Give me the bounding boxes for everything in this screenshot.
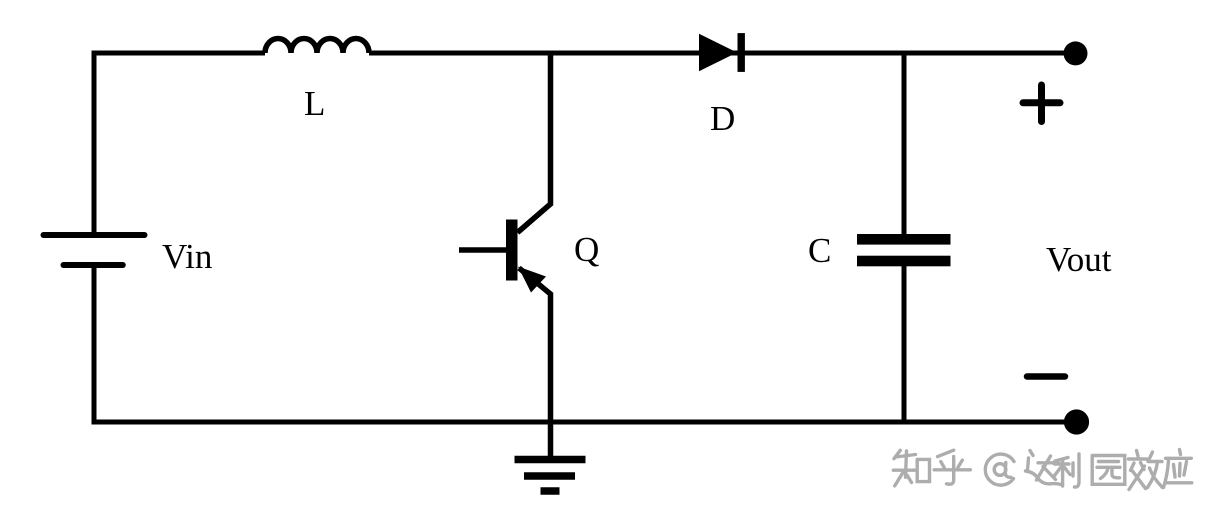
node: output - terminal xyxy=(1064,409,1089,434)
wire: emitter vertical to ground xyxy=(548,422,554,457)
label D xyxy=(710,99,735,138)
battery Vin xyxy=(44,235,145,265)
node: output + terminal xyxy=(1064,41,1088,65)
minus sign xyxy=(1027,373,1065,380)
diode D xyxy=(699,33,745,72)
svg-text:L: L xyxy=(304,84,325,123)
label L xyxy=(304,84,325,123)
transistor Q1 emitter with arrow xyxy=(518,267,551,423)
glyph @ xyxy=(985,454,1014,485)
inductor L xyxy=(265,39,369,54)
watermark: 知乎 @达利园效应 (hand-drawn gray strokes) xyxy=(893,450,1192,490)
wire: collector vertical from top rail xyxy=(518,53,551,233)
label Q xyxy=(574,230,599,269)
wire: top rail from input corner to output terminal xyxy=(94,51,1075,56)
glyph 知 xyxy=(893,450,929,486)
wire: capacitor top vertical xyxy=(902,53,907,234)
glyph 效 xyxy=(1129,451,1163,490)
transistor Q1 base lead xyxy=(459,247,506,253)
plus sign xyxy=(1023,85,1060,122)
label Vin xyxy=(162,237,212,276)
svg-text:Q: Q xyxy=(574,230,599,269)
glyph 乎 xyxy=(934,450,970,484)
ground xyxy=(515,460,586,492)
wire: bottom rail xyxy=(92,420,1077,425)
transistor Q1 base bar xyxy=(506,220,518,281)
svg-text:Vin: Vin xyxy=(162,237,212,276)
glyph 园 xyxy=(1092,456,1125,485)
capacitor C xyxy=(857,234,951,266)
wire: left vertical from battery to bottom rail xyxy=(92,265,97,424)
glyph 利 xyxy=(1054,454,1080,487)
glyph 应 xyxy=(1164,450,1192,488)
wire: left vertical from top rail to battery xyxy=(92,51,97,236)
glyph 达 xyxy=(1026,451,1062,485)
svg-text:C: C xyxy=(808,231,831,270)
label Vout xyxy=(1046,240,1112,279)
label C xyxy=(808,231,831,270)
svg-text:D: D xyxy=(710,99,735,138)
svg-text:Vout: Vout xyxy=(1046,240,1112,279)
wire: capacitor bottom vertical xyxy=(902,266,907,422)
